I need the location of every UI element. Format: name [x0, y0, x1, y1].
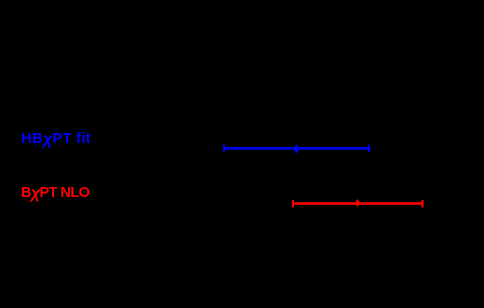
errorbar HBχPT fit: right cap — [368, 145, 370, 152]
errorbar BχPT NLO: left cap — [292, 200, 294, 208]
svg-text:HBχPT fit: HBχPT fit — [21, 131, 91, 148]
errorbar BχPT NLO: main horizontal line — [293, 202, 422, 205]
errorbar HBχPT fit: main horizontal line — [224, 147, 369, 150]
errorbar BχPT NLO: right cap — [421, 200, 423, 208]
errorbar BχPT NLO: central value marker (thin diamond) — [356, 199, 359, 207]
errorbar HBχPT fit: left cap — [223, 145, 225, 152]
svg-text:BχPT NLO: BχPT NLO — [21, 185, 90, 202]
errorbar HBχPT fit: central value marker (thin diamond) — [295, 144, 299, 153]
